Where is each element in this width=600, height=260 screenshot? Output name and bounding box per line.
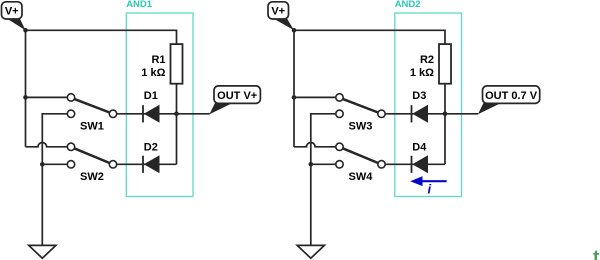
wire rail corner with hop to SW2 upper contact: [26, 143, 68, 147]
current arrow i: [410, 176, 446, 186]
svg-text:R2: R2: [420, 54, 434, 66]
resistor R1: [171, 44, 183, 84]
switch SW3: [336, 94, 385, 118]
wire V+ rail down: [293, 30, 295, 147]
wire resistor bottom down to D2: [176, 84, 178, 165]
ground: [297, 245, 324, 258]
wire SW2 lower contact: [42, 163, 67, 165]
wire V+ rail to resistor top: [294, 30, 445, 44]
diode D4: [412, 155, 429, 173]
junction at SW2 lower wire: [40, 162, 45, 167]
AND box AND1: [126, 13, 193, 197]
resistor R2: [439, 44, 451, 84]
wire V+ rail to resistor top: [26, 30, 177, 44]
svg-text:D4: D4: [412, 142, 427, 154]
svg-text:SW4: SW4: [349, 171, 374, 183]
junction output node: [174, 112, 179, 117]
svg-text:1 kΩ: 1 kΩ: [410, 67, 434, 79]
svg-text:D1: D1: [144, 90, 158, 102]
junction output node: [443, 112, 448, 117]
wire rail corner with hop to SW4 upper contact: [294, 143, 336, 147]
junction at V+ flag: [23, 28, 28, 33]
wire output node: [177, 113, 210, 115]
ground: [29, 245, 56, 258]
net flag V+: [268, 2, 294, 31]
wire to SW1 upper contact: [26, 96, 68, 98]
switch SW4: [336, 143, 385, 168]
svg-text:D3: D3: [412, 90, 426, 102]
junction at V+ flag: [292, 28, 297, 33]
svg-text:SW2: SW2: [80, 171, 104, 183]
svg-text:D2: D2: [144, 142, 158, 154]
AND box AND2: [395, 13, 462, 197]
svg-text:OUT 0.7 V: OUT 0.7 V: [485, 90, 538, 102]
svg-text:i: i: [428, 182, 432, 197]
wire resistor bottom down to D4: [444, 84, 446, 165]
junction on rail: [23, 95, 28, 100]
svg-text:SW1: SW1: [80, 120, 104, 132]
wire SW2 pole to D2: [117, 163, 177, 165]
junction at SW4 lower wire: [309, 162, 314, 167]
diode D3: [412, 105, 429, 123]
wire SW4 lower contact: [311, 163, 336, 165]
wire SW3 pole to D3: [385, 113, 445, 115]
diode D1: [143, 105, 160, 123]
svg-text:OUT V+: OUT V+: [217, 90, 257, 102]
svg-text:AND2: AND2: [395, 0, 421, 10]
junction on rail: [292, 95, 297, 100]
net flag V+: [2, 2, 26, 31]
wire SW4 pole to D4: [385, 163, 445, 165]
svg-text:V+: V+: [5, 6, 19, 18]
svg-text:SW3: SW3: [349, 120, 373, 132]
switch SW2: [67, 143, 116, 168]
wire SW3 lower contact down to ground: [311, 114, 336, 246]
svg-text:R1: R1: [151, 54, 165, 66]
svg-text:V+: V+: [271, 6, 285, 18]
svg-text:AND1: AND1: [126, 0, 153, 10]
wire V+ rail down: [25, 30, 27, 147]
wire SW1 lower contact down to ground: [42, 114, 67, 246]
net flag OUT 0.7 V: [478, 86, 540, 114]
switch SW1: [67, 94, 116, 118]
wire output node: [445, 113, 478, 115]
wire SW1 pole to D1: [117, 113, 177, 115]
wire to SW3 upper contact: [294, 96, 336, 98]
diode D2: [143, 155, 160, 173]
svg-text:t: t: [593, 248, 600, 260]
net flag OUT V+: [209, 86, 260, 114]
svg-text:1 kΩ: 1 kΩ: [141, 67, 165, 79]
